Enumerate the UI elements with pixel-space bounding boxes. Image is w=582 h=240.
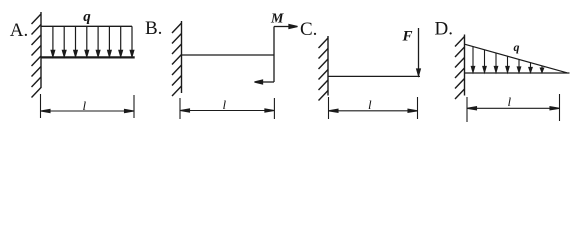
svg-text:M: M (270, 12, 284, 27)
svg-text:D.: D. (435, 18, 453, 39)
distributed load q on A: top line (41, 25, 132, 27)
dimension line l under A (41, 94, 135, 118)
force F at free end of C (417, 28, 421, 76)
wall B (172, 21, 182, 96)
svg-text:l: l (223, 97, 227, 112)
wall D (455, 35, 465, 100)
moment couple M at free end of B (255, 25, 298, 84)
svg-text:A.: A. (10, 20, 28, 41)
beam D (465, 72, 570, 74)
dimension line l under C (329, 97, 418, 119)
svg-text:F: F (402, 29, 413, 45)
beam A (41, 56, 135, 58)
wall C (319, 36, 329, 101)
triangular load on D: sloped top line (465, 44, 567, 73)
svg-text:q: q (514, 40, 520, 54)
svg-text:q: q (83, 9, 91, 25)
svg-text:C.: C. (300, 19, 317, 40)
dimension line l under B (180, 98, 274, 119)
svg-text:l: l (83, 98, 87, 113)
triangular load on D: arrows (471, 47, 543, 73)
dimension line l under D (467, 94, 560, 122)
svg-text:l: l (368, 97, 372, 112)
distributed load q on A: arrows (51, 26, 134, 56)
svg-text:B.: B. (145, 18, 162, 39)
svg-text:l: l (508, 94, 512, 109)
beam C (328, 75, 420, 77)
beam B (182, 54, 275, 56)
wall A (32, 12, 42, 98)
